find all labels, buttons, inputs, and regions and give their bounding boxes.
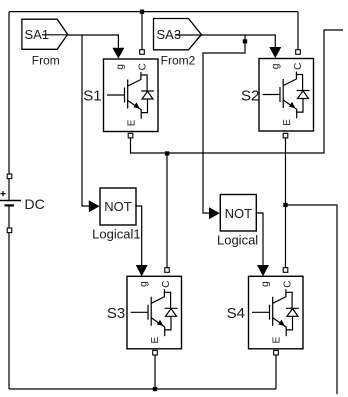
S4 C port — [283, 268, 288, 273]
svg-text:E: E — [272, 337, 283, 344]
wire top positive rail — [9, 11, 298, 13]
arrowhead into S3 g — [136, 265, 148, 276]
IGBT block S2 — [259, 59, 314, 132]
svg-text:NOT: NOT — [225, 206, 253, 221]
svg-text:S4: S4 — [227, 305, 245, 322]
svg-text:E: E — [150, 337, 161, 344]
svg-text:E: E — [127, 119, 138, 126]
S1 E port — [128, 133, 133, 138]
svg-text:g: g — [260, 281, 271, 287]
arrowhead into S1 g — [112, 48, 124, 59]
svg-text:C: C — [283, 280, 294, 287]
wire S4 emitter to bottom rail — [275, 355, 277, 389]
svg-text:NOT: NOT — [104, 199, 132, 214]
arrowhead into Logical1 — [89, 200, 100, 212]
wire SA3 to S2 gate — [201, 35, 275, 48]
wire node B to output terminal — [286, 205, 338, 394]
svg-text:From2: From2 — [161, 54, 196, 68]
junction dot SA3 branch — [243, 39, 247, 43]
NOT gate Logical — [220, 195, 256, 232]
svg-text:g: g — [139, 281, 150, 287]
S3 E port — [153, 350, 158, 355]
wire rail to S1 collector — [141, 12, 143, 51]
wire S3 emitter to bottom rail — [154, 355, 156, 389]
DC source V1 battery symbol — [0, 191, 21, 205]
IGBT block S3 — [127, 276, 182, 349]
From block SA1 — [22, 19, 68, 49]
S2 E port — [283, 133, 288, 138]
junction dot node B — [283, 203, 287, 207]
svg-text:S2: S2 — [241, 88, 259, 105]
svg-text:g: g — [271, 64, 282, 70]
svg-text:E: E — [282, 119, 293, 126]
DC port top — [7, 174, 12, 179]
From block SA3 — [154, 19, 202, 50]
svg-text:Logical: Logical — [217, 233, 258, 248]
svg-text:DC: DC — [25, 196, 45, 212]
IGBT block S4 — [249, 276, 304, 349]
svg-text:C: C — [293, 63, 304, 70]
S4 E port — [274, 350, 279, 355]
wire S2 emitter to S4 collector — [285, 138, 287, 270]
wire left DC bus upper — [8, 12, 10, 201]
svg-text:S1: S1 — [83, 88, 101, 105]
wire SA3 branch to Logical — [203, 35, 245, 213]
wire Logical1 to S3 gate — [136, 206, 142, 266]
junction dot node A — [165, 151, 169, 155]
wire SA1 to S1 gate — [68, 35, 119, 49]
svg-text:C: C — [161, 280, 172, 287]
wire Logical to S4 gate — [256, 213, 263, 266]
arrowhead into S2 g — [269, 47, 281, 58]
svg-text:Logical1: Logical1 — [92, 227, 140, 242]
svg-text:g: g — [115, 64, 126, 70]
wire SA1 branch to Logical1 — [82, 35, 89, 206]
junction dot top rail — [140, 10, 144, 14]
wire bottom negative rail — [9, 388, 276, 390]
svg-text:C: C — [138, 63, 149, 70]
junction dot bottom rail — [153, 387, 157, 391]
wire S1 emitter to midpoint rail A — [131, 30, 344, 153]
S3 C port — [165, 268, 170, 273]
S1 C port — [140, 50, 145, 55]
arrowhead into Logical — [209, 207, 220, 219]
NOT gate Logical1 — [100, 188, 136, 225]
wire node A to S3 collector — [166, 153, 168, 269]
arrowhead into S4 g — [257, 265, 269, 276]
IGBT block S1 — [104, 59, 159, 132]
wire left DC bus lower — [8, 206, 10, 390]
wire rail to S2 collector — [297, 12, 299, 51]
svg-text:From: From — [32, 54, 60, 68]
svg-text:S3: S3 — [107, 305, 125, 322]
DC port bottom — [7, 228, 12, 233]
S2 C port — [296, 50, 301, 55]
